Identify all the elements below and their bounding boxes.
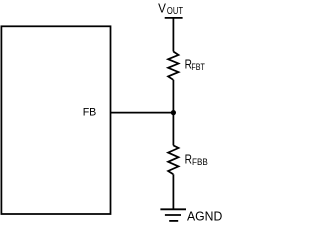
node VOUT terminal bar xyxy=(165,17,183,19)
svg-text:R: R xyxy=(185,152,192,167)
wire junction to RFBB xyxy=(172,113,174,146)
wire RFBT to junction xyxy=(172,80,174,113)
ground AGND symbol xyxy=(160,209,186,221)
svg-text:FBT: FBT xyxy=(191,62,205,73)
wire RFBB to ground xyxy=(172,174,174,209)
svg-text:FB: FB xyxy=(83,106,97,118)
svg-text:AGND: AGND xyxy=(187,209,222,223)
svg-text:OUT: OUT xyxy=(167,6,183,17)
IC U1 (regulator block with FB pin) xyxy=(1,26,110,214)
svg-text:FBB: FBB xyxy=(192,157,208,168)
wire VOUT to RFBT xyxy=(172,18,174,52)
wire FB to junction xyxy=(111,112,174,114)
resistor RFBB xyxy=(168,145,178,174)
junction node dot xyxy=(171,110,176,115)
svg-text:V: V xyxy=(158,1,166,16)
resistor RFBT xyxy=(168,52,178,80)
